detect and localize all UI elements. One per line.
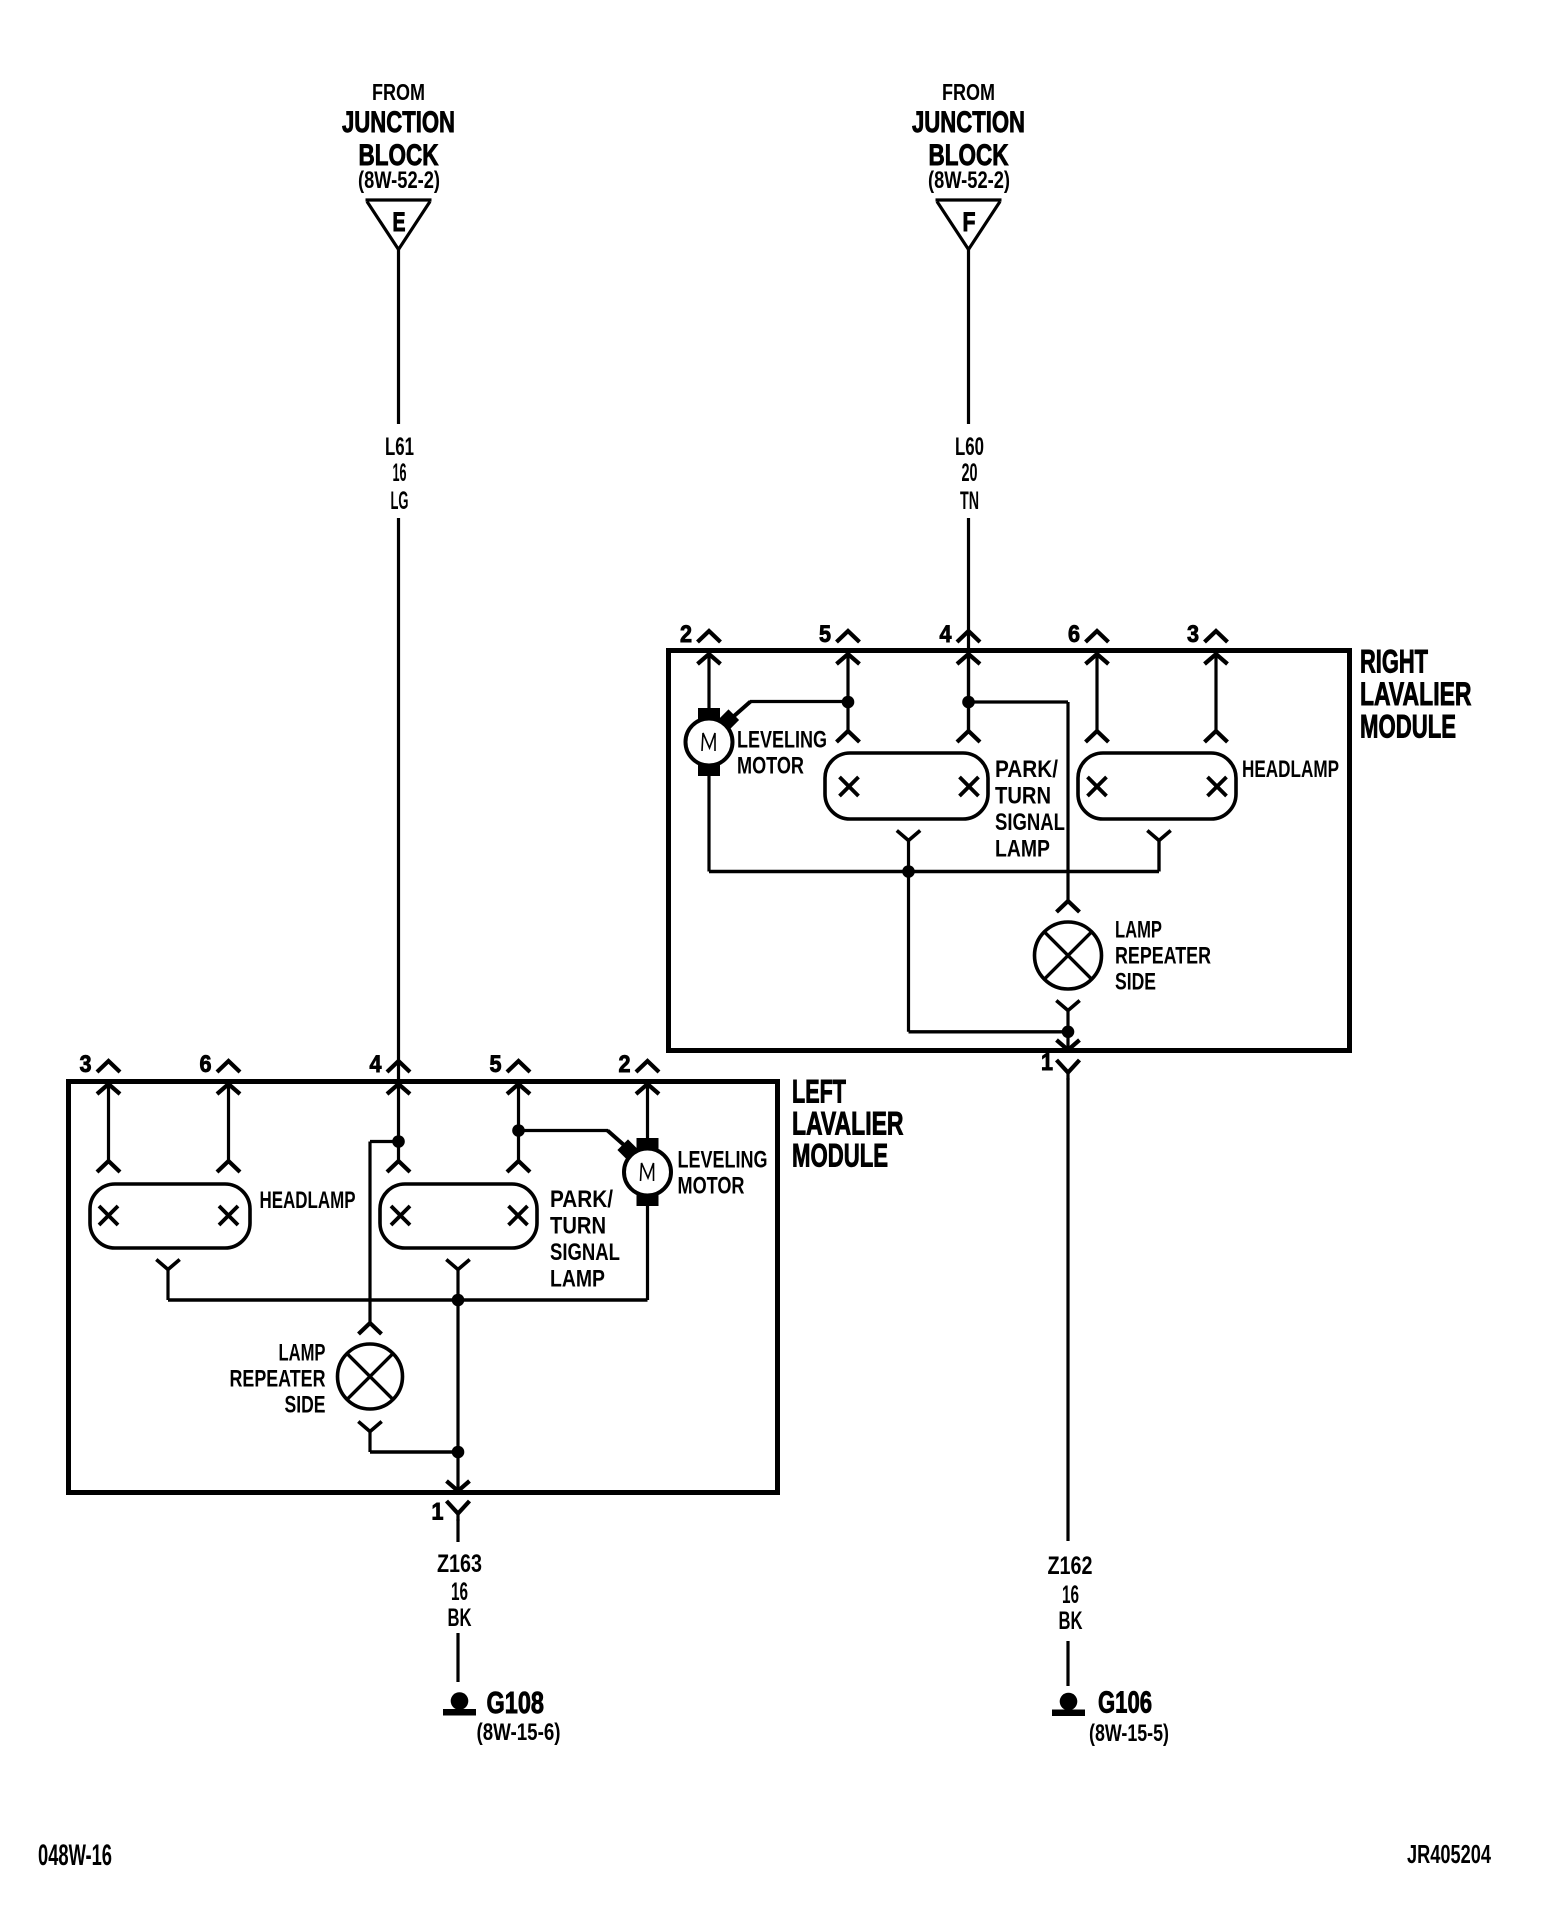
svg-text:6: 6 bbox=[1068, 621, 1080, 648]
svg-text:4: 4 bbox=[370, 1051, 383, 1078]
svg-text:SIGNAL: SIGNAL bbox=[550, 1239, 620, 1266]
svg-text:Z162: Z162 bbox=[1048, 1552, 1093, 1580]
svg-text:(8W-15-6): (8W-15-6) bbox=[477, 1719, 561, 1746]
svg-text:BK: BK bbox=[448, 1604, 472, 1632]
svg-text:L60: L60 bbox=[955, 433, 984, 461]
svg-text:TURN: TURN bbox=[550, 1213, 606, 1240]
svg-text:G106: G106 bbox=[1098, 1685, 1152, 1720]
svg-text:3: 3 bbox=[1187, 621, 1199, 648]
svg-text:JUNCTION: JUNCTION bbox=[912, 106, 1025, 139]
svg-text:(8W-52-2): (8W-52-2) bbox=[928, 167, 1010, 194]
svg-text:6: 6 bbox=[200, 1051, 212, 1078]
svg-text:1: 1 bbox=[1041, 1049, 1053, 1076]
svg-text:16: 16 bbox=[451, 1578, 468, 1606]
svg-text:(8W-15-5): (8W-15-5) bbox=[1089, 1720, 1169, 1747]
svg-text:Z163: Z163 bbox=[437, 1550, 482, 1578]
svg-text:SIDE: SIDE bbox=[285, 1392, 326, 1419]
svg-text:TN: TN bbox=[960, 487, 979, 515]
svg-text:2: 2 bbox=[619, 1051, 631, 1078]
svg-text:TURN: TURN bbox=[995, 783, 1051, 810]
svg-text:048W-16: 048W-16 bbox=[38, 1839, 112, 1872]
svg-text:JUNCTION: JUNCTION bbox=[342, 106, 455, 139]
svg-text:16: 16 bbox=[1062, 1581, 1079, 1609]
svg-text:HEADLAMP: HEADLAMP bbox=[1242, 756, 1339, 783]
svg-text:LAMP: LAMP bbox=[279, 1340, 326, 1367]
svg-text:MOTOR: MOTOR bbox=[737, 753, 804, 780]
svg-text:L61: L61 bbox=[385, 433, 414, 461]
svg-text:4: 4 bbox=[940, 621, 953, 648]
svg-text:SIGNAL: SIGNAL bbox=[995, 809, 1065, 836]
svg-text:FROM: FROM bbox=[942, 79, 995, 105]
svg-text:1: 1 bbox=[432, 1499, 444, 1526]
svg-text:5: 5 bbox=[819, 621, 831, 648]
svg-text:LAVALIER: LAVALIER bbox=[792, 1106, 904, 1142]
svg-text:PARK/: PARK/ bbox=[550, 1186, 613, 1213]
svg-text:MODULE: MODULE bbox=[792, 1138, 888, 1174]
svg-text:BK: BK bbox=[1059, 1607, 1083, 1635]
svg-text:5: 5 bbox=[490, 1051, 502, 1078]
svg-text:LAMP: LAMP bbox=[995, 836, 1050, 863]
svg-text:LAMP: LAMP bbox=[550, 1266, 605, 1293]
svg-text:G108: G108 bbox=[487, 1685, 545, 1720]
svg-text:REPEATER: REPEATER bbox=[1115, 943, 1211, 970]
svg-text:E: E bbox=[393, 207, 406, 237]
svg-text:20: 20 bbox=[962, 459, 978, 487]
svg-text:2: 2 bbox=[680, 621, 692, 648]
svg-text:REPEATER: REPEATER bbox=[230, 1366, 326, 1393]
svg-text:LG: LG bbox=[391, 487, 409, 515]
svg-text:MODULE: MODULE bbox=[1360, 709, 1456, 745]
svg-text:JR405204: JR405204 bbox=[1407, 1839, 1491, 1869]
svg-text:LAMP: LAMP bbox=[1115, 917, 1162, 944]
svg-text:LAVALIER: LAVALIER bbox=[1360, 676, 1472, 712]
svg-text:(8W-52-2): (8W-52-2) bbox=[358, 167, 440, 194]
svg-text:MOTOR: MOTOR bbox=[678, 1173, 745, 1200]
svg-text:LEFT: LEFT bbox=[792, 1074, 846, 1110]
svg-text:HEADLAMP: HEADLAMP bbox=[260, 1187, 356, 1214]
svg-text:LEVELING: LEVELING bbox=[678, 1147, 768, 1174]
svg-text:LEVELING: LEVELING bbox=[737, 727, 827, 754]
svg-text:F: F bbox=[963, 207, 976, 237]
svg-text:RIGHT: RIGHT bbox=[1360, 644, 1428, 680]
svg-text:3: 3 bbox=[80, 1051, 92, 1078]
svg-text:16: 16 bbox=[393, 459, 407, 487]
svg-text:SIDE: SIDE bbox=[1115, 969, 1156, 996]
svg-text:FROM: FROM bbox=[372, 79, 425, 105]
svg-text:PARK/: PARK/ bbox=[995, 756, 1058, 783]
